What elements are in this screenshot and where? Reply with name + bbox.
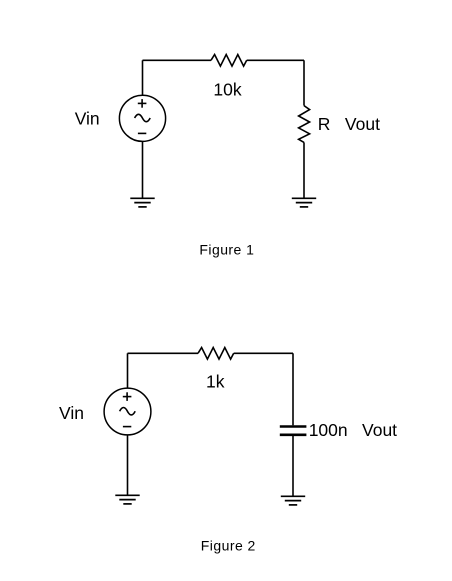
voltage source V1 Vin (figure 1) [119, 95, 165, 141]
voltage source V2 Vin (figure 2) [104, 388, 151, 435]
node Vout (figure 2) [362, 420, 397, 440]
svg-text:R: R [318, 114, 331, 134]
svg-text:Figure 1: Figure 1 [199, 241, 254, 257]
wire source bottom (figure 2) [127, 435, 129, 495]
svg-text:Vout: Vout [362, 420, 397, 440]
svg-text:Figure 2: Figure 2 [201, 537, 256, 553]
value label 10k [213, 80, 241, 100]
wire right vertical lower [303, 142, 305, 198]
wire top rail right segment [247, 59, 304, 61]
wire top rail right segment (figure 2) [234, 352, 293, 354]
wire top-left vertical (source top to top rail, figure 2) [127, 353, 129, 388]
resistor R (vertical) [299, 106, 310, 143]
ground (figure 2 right) [281, 496, 305, 505]
ground (figure 2 left) [115, 495, 139, 504]
wire top rail left segment [143, 59, 212, 61]
label R [318, 114, 331, 134]
ground (figure 1 right) [292, 198, 316, 207]
label Vin (figure 2) [59, 403, 84, 423]
label Vin (figure 1) [75, 108, 100, 128]
wire source bottom (figure 1) [142, 141, 144, 198]
svg-text:Vin: Vin [75, 108, 100, 128]
wire right vertical lower (figure 2) [292, 436, 294, 496]
resistor 1k (horizontal) [198, 348, 234, 360]
wire right vertical upper [303, 60, 305, 105]
svg-text:Vin: Vin [59, 403, 84, 423]
node Vout (figure 1) [345, 114, 380, 134]
value label 1k [206, 372, 225, 392]
wire top-left vertical (source top to top rail) [142, 60, 144, 95]
wire top rail left segment (figure 2) [128, 352, 199, 354]
resistor 10k (horizontal) [211, 55, 247, 67]
svg-text:100n: 100n [309, 420, 348, 440]
svg-text:1k: 1k [206, 372, 225, 392]
ground (figure 1 left) [130, 198, 154, 207]
value label 100n [309, 420, 348, 440]
caption Figure 2 [201, 537, 256, 553]
svg-text:Vout: Vout [345, 114, 380, 134]
svg-text:10k: 10k [213, 80, 241, 100]
capacitor 100n [280, 427, 307, 435]
caption Figure 1 [199, 241, 254, 257]
wire right vertical upper (figure 2) [292, 353, 294, 425]
